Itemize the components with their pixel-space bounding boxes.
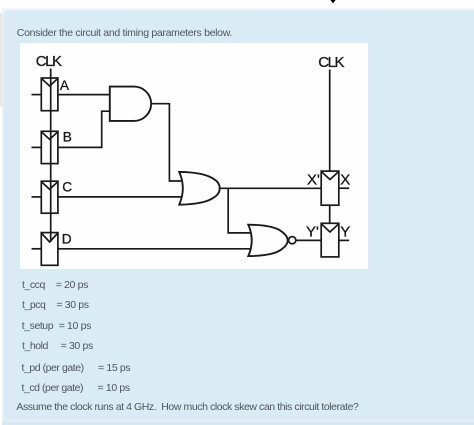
flip-flop C body: [41, 181, 58, 213]
svg-text:X': X': [307, 172, 320, 189]
flip-flop Y body: [321, 223, 339, 257]
gray sliver top-left: [0, 13, 2, 107]
timing parameter t_ccq: [22, 278, 45, 292]
flip-flop B body: [41, 131, 58, 163]
svg-text:D: D: [62, 231, 72, 246]
clock wire left vertical: [50, 69, 52, 243]
flip-flop X output stub: [339, 187, 349, 189]
wire A to AND: [58, 94, 110, 96]
AND gate: [110, 87, 151, 121]
wire C to OR: [58, 196, 182, 198]
flip-flop D input stub: [32, 248, 42, 250]
OR gate: [179, 172, 220, 205]
timing parameter t_setup: [22, 319, 53, 333]
flip-flop A body: [41, 78, 58, 111]
NOR gate body: [248, 225, 287, 256]
top scroll arrow: [328, 0, 338, 5]
flip-flop Y output stub: [339, 239, 349, 241]
NOR gate bubble: [289, 237, 296, 244]
flip-flop D body: [41, 233, 58, 266]
card top shade: [2, 7, 474, 11]
bottom band light: [2, 419, 474, 422]
wire B to AND: [58, 111, 110, 147]
svg-text:CLK: CLK: [36, 53, 62, 70]
flip-flop A input stub: [32, 94, 42, 96]
clock wire right vertical upper: [329, 70, 331, 172]
question text: [16, 400, 358, 414]
wire NOR to Y flip-flop: [296, 239, 322, 241]
wire AND to OR: [151, 104, 181, 181]
wire D to NOR: [58, 248, 250, 250]
svg-text:X: X: [340, 172, 350, 189]
wire OR branch down to NOR: [228, 188, 250, 233]
clock wire right between X and Y: [329, 205, 331, 223]
svg-text:A: A: [60, 78, 70, 93]
intro text: [17, 26, 232, 40]
timing parameter t_pcq: [22, 298, 45, 312]
svg-text:C: C: [62, 180, 72, 195]
wire OR to X flip-flop: [220, 187, 322, 189]
timing parameter t_cd: [22, 381, 84, 395]
flip-flop B input stub: [32, 146, 42, 148]
timing parameter t_hold: [22, 339, 48, 353]
flip-flop X body: [321, 171, 339, 205]
svg-text:B: B: [63, 129, 72, 144]
light left edge of card: [2, 11, 4, 419]
svg-text:Y: Y: [340, 223, 350, 240]
white circuit box: [20, 43, 368, 269]
timing parameter t_pd: [22, 361, 84, 375]
svg-text:Y': Y': [306, 223, 319, 240]
svg-text:CLK: CLK: [318, 54, 344, 71]
bottom band blue: [2, 422, 474, 425]
flip-flop C input stub: [32, 196, 42, 198]
